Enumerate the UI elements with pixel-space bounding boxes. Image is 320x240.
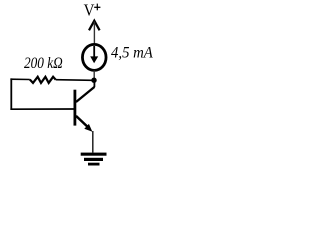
wire node to resistor (56, 79, 92, 82)
wire resistor to left corner (10, 78, 29, 80)
svg-text:200 kΩ: 200 kΩ (24, 55, 63, 72)
node junction dot (91, 78, 96, 83)
wire left vertical (10, 78, 12, 110)
wire emitter to ground (92, 131, 94, 153)
resistor R1 200 kOhm (30, 77, 56, 83)
transistor Q1 emitter lead with arrow (76, 116, 92, 132)
svg-text:V: V (84, 1, 95, 20)
wire arrow to V+ (89, 21, 100, 44)
svg-text:4,5 mA: 4,5 mA (111, 45, 153, 62)
wire source to collector node (93, 71, 95, 81)
transistor Q1 collector lead (93, 80, 95, 87)
current source I1 4,5 mA (82, 44, 106, 70)
transistor Q1 base bar (74, 90, 77, 126)
wire base feedback (10, 108, 73, 110)
node V+ label (84, 1, 101, 20)
ground (81, 153, 107, 166)
